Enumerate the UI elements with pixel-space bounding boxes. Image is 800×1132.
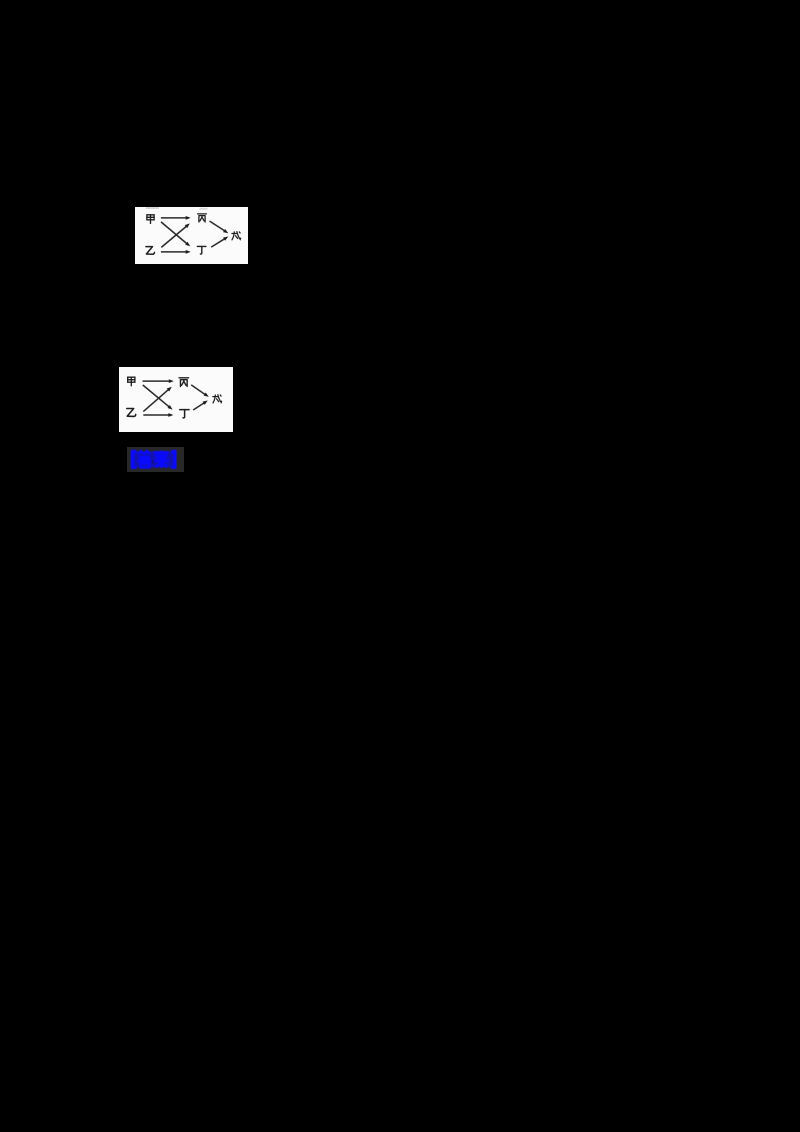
arrow 乙→丙 <box>161 226 186 247</box>
arrow 甲→丁 <box>161 222 187 244</box>
dark hole artifact <box>151 460 154 463</box>
node 乙 <box>146 247 155 255</box>
node 甲 <box>147 215 154 224</box>
arrow 甲→丁 <box>143 385 170 407</box>
bracket 】 <box>171 452 175 468</box>
diagram panel 1 (food web: 甲乙丙丁戊) <box>135 207 248 264</box>
node 乙 <box>127 408 136 416</box>
arrow 丙→戊 <box>210 221 226 231</box>
scan smudge top-left <box>146 207 159 209</box>
blue underlay <box>131 451 176 467</box>
arrow 乙→丁 <box>143 414 169 416</box>
scan smudge top-middle <box>200 208 208 210</box>
arrow 丁→戊 <box>211 238 225 247</box>
node 丁 <box>180 410 189 418</box>
node 丙 <box>179 378 189 387</box>
answer label 【答案】 (blurred blue) <box>127 447 184 472</box>
arrow 丙→戊 <box>191 385 206 395</box>
node 戊 <box>213 395 222 403</box>
diagram panel 2 (food web: 甲乙丙丁戊) <box>119 367 233 432</box>
arrow 甲→丙 <box>161 217 187 219</box>
node 甲 <box>128 377 135 386</box>
node 丙 <box>198 214 207 222</box>
char 答 <box>138 451 152 467</box>
node 丁 <box>197 246 206 254</box>
node 戊 <box>232 232 241 240</box>
arrow 乙→丁 <box>161 251 187 253</box>
bracket 【 <box>133 452 137 468</box>
arrow 丁→戊 <box>193 402 205 410</box>
arrow 甲→丙 <box>143 380 170 382</box>
arrow 乙→丙 <box>143 389 169 411</box>
char 案 <box>154 451 169 468</box>
